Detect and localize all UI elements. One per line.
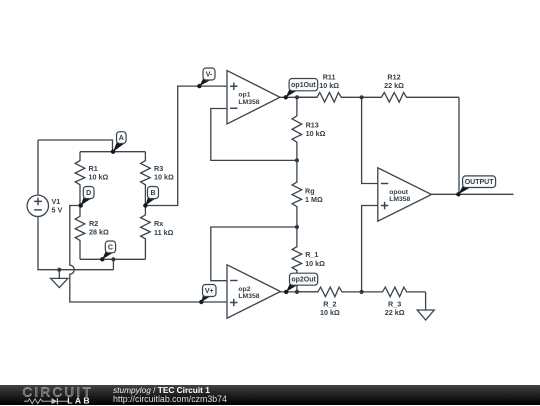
svg-text:op2: op2	[238, 286, 250, 293]
svg-text:11 kΩ: 11 kΩ	[154, 228, 174, 237]
label R13 10 k&#937;	[306, 120, 326, 138]
resistor R_3	[362, 287, 426, 297]
svg-text:10 kΩ: 10 kΩ	[154, 173, 174, 182]
junction node C	[111, 257, 115, 261]
wire op1 inverting feedback	[211, 109, 297, 161]
resistor R2	[75, 206, 85, 260]
junction op1 out / R13	[295, 95, 299, 99]
wire R_2-R_3 junction riser to opout non-inverting input	[362, 206, 378, 292]
footer title text	[113, 385, 227, 403]
net flag V-	[197, 68, 215, 88]
svg-text:22 kΩ: 22 kΩ	[384, 81, 404, 90]
svg-text:10 kΩ: 10 kΩ	[305, 259, 325, 268]
net flag op1Out	[284, 79, 318, 100]
junction node D	[79, 203, 83, 207]
CircuitLab logo	[0, 385, 110, 406]
wire op1 output node	[280, 96, 317, 98]
junction feedback / R13 / Rg	[295, 158, 299, 162]
resistor Rx	[141, 206, 151, 260]
svg-text:C: C	[108, 244, 113, 251]
svg-text:D: D	[86, 190, 91, 197]
junction feedback / Rg / R_1	[295, 225, 299, 229]
svg-text:LAB: LAB	[67, 395, 92, 405]
resistor R_1	[292, 227, 302, 292]
svg-text:B: B	[150, 190, 155, 197]
junction node A	[111, 150, 115, 154]
resistor R1	[75, 152, 85, 206]
voltage source V1 5 V	[27, 140, 48, 217]
wire bridge top (A row)	[80, 151, 145, 153]
label Rg 1 M&#937;	[305, 187, 323, 205]
CircuitLab footer bar	[0, 385, 540, 405]
label R3 10 k&#937;	[154, 164, 174, 182]
wire node C stub down	[112, 259, 114, 269]
label R11 10 k&#937;	[319, 73, 339, 91]
junction node B	[143, 203, 147, 207]
svg-text:10 kΩ: 10 kΩ	[306, 129, 326, 138]
resistor R12	[362, 93, 459, 103]
svg-text:V-: V-	[206, 72, 213, 79]
wire R12 to output feedback drop	[458, 97, 460, 194]
resistor R3	[141, 152, 151, 206]
svg-text:10 kΩ: 10 kΩ	[319, 81, 339, 90]
resistor R13	[292, 97, 302, 160]
wire opout output	[432, 193, 514, 195]
wire op2 inverting feedback	[211, 227, 297, 281]
svg-text:10 kΩ: 10 kΩ	[89, 173, 109, 182]
net flag V+	[199, 285, 216, 305]
svg-text:28 kΩ: 28 kΩ	[89, 227, 109, 236]
svg-text:op2Out: op2Out	[291, 277, 316, 284]
label R_1 10 k&#937;	[305, 250, 325, 268]
label R1 10 k&#937;	[89, 164, 109, 182]
wire op2 output node	[281, 291, 318, 293]
op-amp op2 LM358	[227, 265, 281, 319]
svg-text:LM358: LM358	[238, 99, 259, 106]
svg-text:opout: opout	[389, 189, 409, 196]
resistor Rg	[292, 160, 302, 227]
op-amp op1 LM358	[227, 71, 280, 125]
junction op2 out / R_1	[295, 290, 299, 294]
wire ground rail	[38, 216, 113, 270]
net flag B	[143, 187, 158, 208]
svg-text:LM358: LM358	[238, 293, 259, 300]
svg-text:5 V: 5 V	[52, 206, 63, 215]
ground (left, V1 negative rail)	[51, 270, 68, 288]
junction R_2 / R_3 node	[360, 290, 364, 294]
net flag op2Out	[284, 273, 318, 294]
net flag A	[111, 132, 126, 154]
label Rx 11 k&#937;	[154, 219, 174, 237]
svg-text:OUTPUT: OUTPUT	[465, 179, 495, 186]
net flag D	[79, 187, 95, 208]
label R12 22 k&#937;	[384, 73, 404, 91]
net flag C	[100, 241, 116, 261]
junction R11 / R12 node	[360, 95, 364, 99]
svg-text:22 kΩ: 22 kΩ	[385, 308, 405, 317]
resistor R_2	[297, 287, 362, 297]
junction ground rail	[57, 268, 61, 272]
label R_3 22 k&#937;	[385, 300, 405, 318]
svg-text:10 kΩ: 10 kΩ	[320, 308, 340, 317]
svg-text:1 MΩ: 1 MΩ	[305, 195, 323, 204]
wire R11-R12 junction riser to opout inverting input	[362, 97, 378, 183]
svg-text:LM358: LM358	[389, 196, 410, 203]
svg-text:V+: V+	[205, 288, 214, 295]
svg-text:op1: op1	[238, 92, 250, 99]
label R2 28 k&#937;	[89, 219, 109, 237]
wire node B to V- riser	[145, 86, 227, 205]
label V1 5 V	[52, 197, 63, 215]
resistor R11	[297, 93, 362, 103]
label R_2 10 k&#937;	[320, 300, 340, 318]
op-amp opout LM358	[378, 168, 432, 222]
svg-text:A: A	[119, 135, 124, 142]
wire node D to V+ rail down-left (hops over ground rail)	[70, 206, 227, 303]
wire V1 top to node A	[38, 140, 113, 152]
ground (right, R_3)	[417, 292, 434, 320]
svg-text:op1Out: op1Out	[291, 82, 316, 89]
net flag OUTPUT	[456, 176, 495, 197]
wire bridge bottom (C row)	[80, 258, 145, 260]
